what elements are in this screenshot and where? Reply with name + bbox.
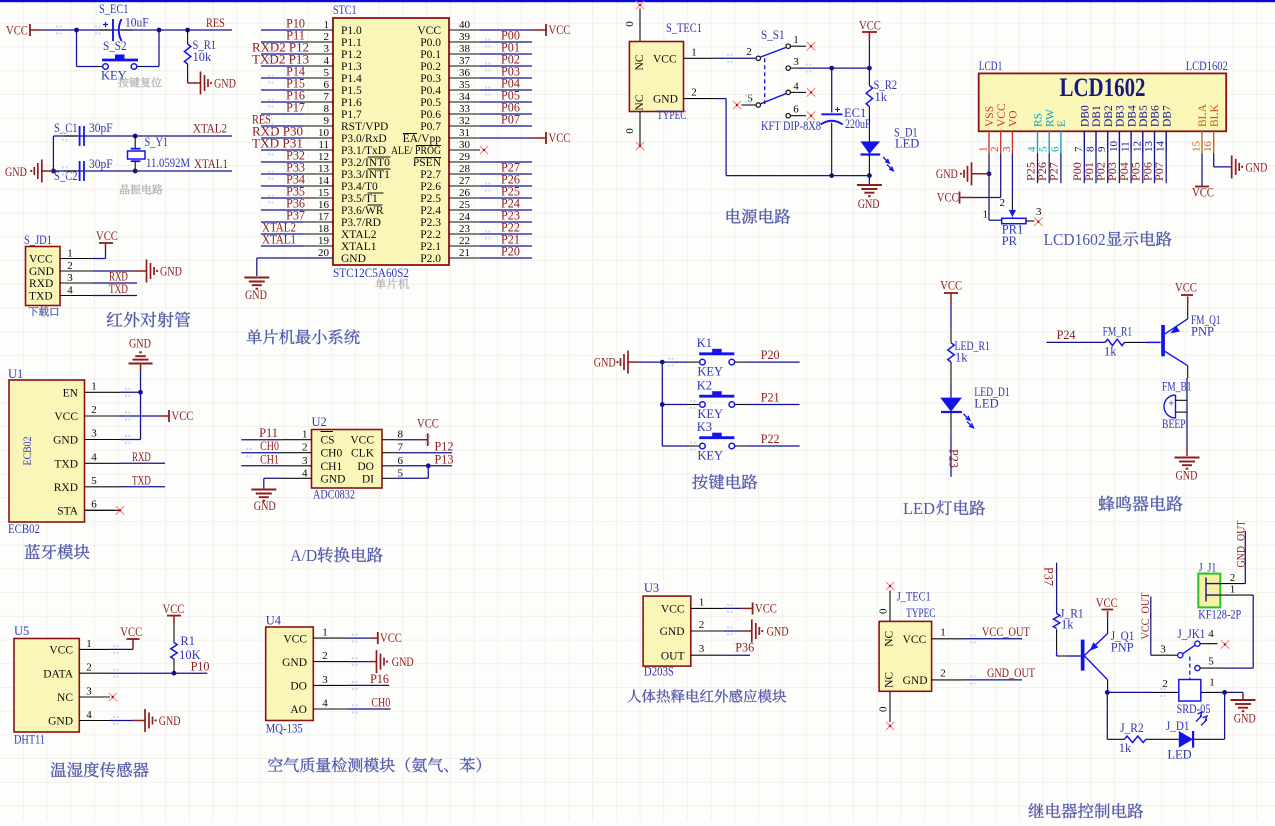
svg-text:11.0592M: 11.0592M bbox=[146, 156, 190, 170]
svg-text:P1.1: P1.1 bbox=[341, 37, 362, 49]
switch pin5 circle bbox=[756, 103, 760, 107]
overline PSEN bbox=[415, 157, 442, 159]
MCU left pin 15 P3.5/T1 bbox=[303, 197, 333, 199]
svg-text:2: 2 bbox=[302, 442, 308, 454]
svg-text:VCC: VCC bbox=[49, 645, 73, 657]
svg-text:CH0: CH0 bbox=[260, 439, 279, 453]
capacitor S_C1 30pF bbox=[64, 135, 77, 137]
power ground GND (MQ) bbox=[348, 661, 368, 663]
caption hong wai dui she guan bbox=[107, 312, 191, 328]
svg-text:OUT: OUT bbox=[661, 650, 685, 662]
wire GND vertical bbox=[140, 392, 142, 439]
wire resistor to LED bbox=[950, 362, 952, 385]
svg-text:GND: GND bbox=[1234, 711, 1256, 726]
pot pin3 no connect bbox=[1026, 220, 1034, 222]
junction bbox=[157, 28, 162, 33]
svg-text:10: 10 bbox=[318, 127, 330, 139]
resistor S_R1 10k bbox=[187, 30, 189, 44]
svg-text:KEY: KEY bbox=[697, 365, 723, 379]
svg-text:S_Y1: S_Y1 bbox=[145, 135, 169, 149]
power ground GND (reset) bbox=[200, 72, 202, 95]
svg-text:9: 9 bbox=[1096, 146, 1108, 152]
svg-text:2: 2 bbox=[322, 650, 328, 662]
svg-text:2: 2 bbox=[67, 260, 73, 272]
svg-text:P0.1: P0.1 bbox=[420, 49, 441, 61]
svg-text:30: 30 bbox=[459, 139, 471, 151]
svg-text:GND: GND bbox=[767, 624, 789, 639]
svg-text:RES: RES bbox=[206, 16, 225, 30]
svg-text:VCC: VCC bbox=[29, 254, 53, 266]
MCU left pin 5 P1.4 bbox=[303, 77, 333, 79]
wire to P21 bbox=[735, 404, 747, 406]
svg-text:15: 15 bbox=[1191, 141, 1203, 153]
wire to base bbox=[1124, 341, 1146, 343]
svg-text:GND: GND bbox=[858, 196, 880, 211]
junction bbox=[74, 28, 79, 33]
LCD wire pin 14 net P07 bbox=[1165, 153, 1167, 183]
svg-text:10uF: 10uF bbox=[125, 16, 149, 30]
caption dian yuan dian lu bbox=[727, 209, 790, 224]
wire CH1 bbox=[241, 465, 282, 467]
caption dan pian ji zui xiao xi tong bbox=[247, 329, 360, 344]
svg-text:LCD1602: LCD1602 bbox=[1186, 59, 1228, 73]
MCU left pin 18 XTAL2 bbox=[303, 233, 333, 235]
svg-text:VCC: VCC bbox=[661, 604, 685, 616]
svg-text:1: 1 bbox=[302, 429, 308, 441]
earth ground GND (U2) bbox=[251, 489, 276, 491]
no connect X (bottom typec) bbox=[639, 112, 641, 147]
resistor R1 10K bbox=[173, 626, 175, 643]
svg-text:VCC: VCC bbox=[1192, 185, 1214, 200]
svg-text:CS: CS bbox=[321, 435, 335, 447]
MCU left pin 14 P3.4/T0 bbox=[303, 185, 333, 187]
svg-text:6: 6 bbox=[1049, 146, 1061, 152]
wire P24 to resistor bbox=[1046, 341, 1105, 343]
MCU right pin 22 P2.1 bbox=[449, 245, 480, 247]
svg-text:GND: GND bbox=[245, 287, 267, 302]
svg-text:SRD-05: SRD-05 bbox=[1177, 702, 1211, 716]
svg-text:GND: GND bbox=[282, 657, 307, 669]
junction bbox=[987, 171, 992, 176]
svg-text:4: 4 bbox=[322, 698, 328, 710]
svg-text:1k: 1k bbox=[1119, 741, 1132, 755]
svg-text:P13: P13 bbox=[435, 453, 454, 467]
wire to base bbox=[1056, 629, 1058, 652]
wire VO drop pin3 bbox=[1011, 153, 1013, 198]
svg-text:ECB02: ECB02 bbox=[22, 436, 34, 465]
svg-text:5: 5 bbox=[324, 67, 330, 79]
svg-text:GND: GND bbox=[936, 166, 958, 181]
wire to P20 bbox=[735, 361, 747, 363]
svg-text:P2.1: P2.1 bbox=[420, 241, 441, 253]
MCU right pin 35 P0.4 bbox=[449, 89, 480, 91]
svg-text:1: 1 bbox=[1230, 584, 1236, 596]
capacitor S_C2 30pF bbox=[64, 170, 77, 172]
wire buzzer to GND bbox=[1186, 412, 1188, 448]
wire RXD bbox=[93, 282, 137, 284]
push button K1 KEY bbox=[662, 361, 688, 363]
wire MCU pin20 to GND bbox=[257, 257, 333, 259]
power port VCC (U1) bbox=[120, 415, 160, 417]
svg-text:7: 7 bbox=[324, 91, 330, 103]
MCU left pin 7 P1.6 bbox=[303, 101, 333, 103]
svg-text:11: 11 bbox=[318, 139, 329, 151]
capacitor EC1 220uF electrolytic bbox=[831, 68, 833, 112]
svg-text:P3.5/T1: P3.5/T1 bbox=[341, 193, 378, 205]
LCD wire pin 13 net P06 bbox=[1154, 153, 1156, 183]
svg-text:10k: 10k bbox=[193, 50, 213, 64]
svg-text:P0.5: P0.5 bbox=[420, 97, 441, 109]
svg-text:2: 2 bbox=[940, 668, 946, 680]
junction bbox=[829, 173, 834, 178]
svg-text:VCC: VCC bbox=[903, 634, 927, 646]
svg-text:NC: NC bbox=[884, 630, 896, 646]
overline RD bbox=[368, 204, 383, 206]
svg-text:P1.3: P1.3 bbox=[341, 61, 362, 73]
wire to P22 bbox=[735, 445, 747, 447]
power port VCC (buzzer) bbox=[1187, 306, 1189, 319]
svg-text:1k: 1k bbox=[1104, 345, 1117, 359]
MCU left pin 8 P1.7 bbox=[303, 113, 333, 115]
svg-text:4: 4 bbox=[302, 467, 308, 479]
svg-text:BLK: BLK bbox=[1209, 103, 1221, 127]
MCU left pin 3 P1.2 bbox=[303, 53, 333, 55]
LED arrows J_D1 bbox=[1196, 712, 1207, 725]
power ground GND (S_JD1) bbox=[93, 270, 134, 272]
svg-text:XTAL1: XTAL1 bbox=[194, 157, 228, 171]
svg-text:LCD1602: LCD1602 bbox=[1044, 230, 1106, 249]
svg-text:10: 10 bbox=[1108, 141, 1120, 153]
wire TXD bbox=[93, 295, 137, 297]
svg-text:VCC: VCC bbox=[6, 23, 28, 38]
svg-text:P2.2: P2.2 bbox=[420, 229, 441, 241]
svg-text:5: 5 bbox=[1208, 656, 1214, 668]
svg-text:J_JK1: J_JK1 bbox=[1177, 627, 1205, 641]
svg-text:3: 3 bbox=[302, 455, 308, 467]
svg-text:DHT11: DHT11 bbox=[14, 732, 45, 747]
LCD wire pin 10 net P03 bbox=[1118, 153, 1120, 183]
svg-text:TXD: TXD bbox=[29, 291, 53, 303]
svg-text:22: 22 bbox=[459, 235, 470, 247]
switch pin2 circle bbox=[756, 56, 760, 60]
svg-text:7: 7 bbox=[398, 442, 404, 454]
svg-text:2: 2 bbox=[1230, 572, 1236, 584]
svg-text:DI: DI bbox=[362, 473, 374, 485]
wire CLK P12 bbox=[396, 452, 453, 454]
no connect NC bbox=[109, 693, 117, 701]
svg-text:BLA: BLA bbox=[1197, 103, 1209, 127]
svg-text:3: 3 bbox=[1001, 146, 1013, 152]
svg-text:P0.7: P0.7 bbox=[420, 121, 441, 133]
svg-text:BEEP: BEEP bbox=[1162, 417, 1186, 431]
power ground GND (DHT11) bbox=[110, 720, 133, 722]
svg-text:4: 4 bbox=[86, 709, 92, 721]
svg-text:DB2: DB2 bbox=[1103, 105, 1115, 127]
svg-text:U1: U1 bbox=[8, 367, 23, 381]
LED J_D1 bbox=[1146, 738, 1179, 740]
svg-text:6: 6 bbox=[324, 79, 330, 91]
svg-text:MQ-135: MQ-135 bbox=[266, 721, 303, 736]
svg-text:30pF: 30pF bbox=[89, 121, 113, 135]
wire BLK to GND bbox=[1213, 153, 1215, 167]
svg-text:DB3: DB3 bbox=[1115, 105, 1127, 127]
svg-text:P3.1/TxD: P3.1/TxD bbox=[341, 145, 386, 157]
svg-text:RW: RW bbox=[1044, 109, 1056, 127]
svg-text:P1.2: P1.2 bbox=[341, 49, 362, 61]
svg-text:VCC: VCC bbox=[996, 103, 1008, 127]
MCU right pin 23 P2.2 bbox=[449, 233, 480, 235]
svg-text:14: 14 bbox=[318, 175, 330, 187]
MCU right pin 36 P0.3 bbox=[449, 77, 480, 79]
svg-text:13: 13 bbox=[1143, 141, 1155, 153]
svg-text:ADC0832: ADC0832 bbox=[313, 487, 355, 502]
wire collector down bbox=[1107, 680, 1109, 693]
junction bbox=[660, 402, 665, 407]
power port VCC (U2 pin8) bbox=[396, 439, 419, 441]
wire P37 down bbox=[1056, 563, 1058, 614]
MCU right pin 39 P0.0 bbox=[449, 41, 480, 43]
svg-text:3: 3 bbox=[324, 43, 330, 55]
svg-text:20: 20 bbox=[318, 247, 330, 259]
svg-text:KF128-2P: KF128-2P bbox=[1198, 608, 1241, 622]
svg-text:10K: 10K bbox=[179, 648, 201, 662]
svg-text:P0.3: P0.3 bbox=[420, 73, 441, 85]
svg-text:TYPEC: TYPEC bbox=[657, 108, 687, 122]
crystal S_Y1 11.0592M bbox=[134, 136, 136, 148]
svg-text:1: 1 bbox=[940, 627, 946, 639]
svg-text:11: 11 bbox=[1120, 141, 1132, 152]
svg-text:VCC: VCC bbox=[755, 601, 777, 616]
MCU left pin 11 P3.1/TxD bbox=[303, 149, 333, 151]
svg-text:U3: U3 bbox=[644, 581, 659, 595]
LED S_D1 bbox=[861, 141, 881, 154]
switch pin6 row bbox=[786, 114, 790, 118]
wire EN to GND net bbox=[120, 391, 141, 393]
svg-text:1k: 1k bbox=[875, 90, 888, 104]
wire typec gnd leg bbox=[716, 98, 726, 100]
svg-text:TXD: TXD bbox=[54, 458, 78, 470]
wire VCC_OUT bbox=[966, 638, 1022, 640]
MCU left pin 6 P1.5 bbox=[303, 89, 333, 91]
no connect X (J_TEC1 bottom) bbox=[889, 691, 891, 722]
svg-text:P0.4: P0.4 bbox=[420, 85, 441, 97]
svg-text:RXD: RXD bbox=[29, 278, 53, 290]
LCD wire pin 6 net P27 bbox=[1060, 153, 1062, 183]
svg-text:GND: GND bbox=[53, 435, 78, 447]
svg-text:KEY: KEY bbox=[697, 449, 723, 463]
svg-text:EN: EN bbox=[63, 387, 79, 399]
svg-text:STC1: STC1 bbox=[333, 3, 357, 17]
svg-text:16: 16 bbox=[318, 199, 330, 211]
svg-text:TXD: TXD bbox=[132, 473, 151, 487]
MCU right pin 31 EA/Vpp bbox=[449, 137, 480, 139]
svg-text:GND: GND bbox=[214, 76, 236, 91]
svg-text:U5: U5 bbox=[14, 624, 29, 638]
svg-text:DO: DO bbox=[357, 461, 374, 473]
svg-text:36: 36 bbox=[459, 67, 471, 79]
svg-text:NC: NC bbox=[634, 94, 646, 110]
switch pin4 row bbox=[786, 90, 790, 94]
wire pot pin1 bbox=[989, 219, 1002, 221]
overline CS bbox=[321, 431, 334, 433]
svg-text:VCC: VCC bbox=[937, 190, 959, 205]
svg-text:DATA: DATA bbox=[43, 668, 73, 680]
push button K3 KEY bbox=[662, 445, 688, 447]
svg-text:K3: K3 bbox=[697, 420, 712, 434]
svg-text:P12: P12 bbox=[435, 440, 454, 454]
svg-text:24: 24 bbox=[459, 211, 471, 223]
svg-text:GND: GND bbox=[48, 716, 73, 728]
svg-text:K2: K2 bbox=[697, 378, 712, 392]
svg-text:TYPEC: TYPEC bbox=[906, 606, 936, 620]
svg-text:40: 40 bbox=[459, 19, 471, 31]
MCU left pin 16 P3.6/WR bbox=[303, 209, 333, 211]
svg-text:DB6: DB6 bbox=[1150, 105, 1162, 127]
switch blade 2-1 bbox=[761, 48, 786, 58]
svg-text:P36: P36 bbox=[735, 641, 754, 655]
svg-text:P16: P16 bbox=[370, 672, 389, 686]
svg-text:17: 17 bbox=[318, 211, 330, 223]
svg-text:KFT DIP-8X8: KFT DIP-8X8 bbox=[761, 119, 821, 133]
switch blade 5-4 bbox=[761, 94, 786, 104]
wire DO P16 bbox=[348, 684, 389, 686]
svg-text:FM_B1: FM_B1 bbox=[1162, 380, 1192, 394]
svg-text:3: 3 bbox=[91, 428, 97, 440]
capacitor S_EC1 10uF bbox=[100, 29, 111, 31]
svg-text:GND: GND bbox=[341, 253, 366, 265]
power ground GND (U3) bbox=[724, 630, 742, 632]
relay coil SRD-05 bbox=[1107, 691, 1153, 693]
svg-text:8: 8 bbox=[324, 103, 330, 115]
svg-text:DB1: DB1 bbox=[1091, 105, 1103, 127]
MCU right pin 33 P0.6 bbox=[449, 113, 480, 115]
MCU right pin 28 P2.7 bbox=[449, 173, 480, 175]
svg-text:VSS: VSS bbox=[984, 106, 996, 127]
svg-text:VCC: VCC bbox=[380, 630, 402, 645]
svg-text:CH0: CH0 bbox=[371, 696, 390, 710]
svg-text:5: 5 bbox=[398, 467, 404, 479]
MCU right pin 25 P2.4 bbox=[449, 209, 480, 211]
svg-text:CH1: CH1 bbox=[260, 452, 279, 466]
svg-text:P2.5: P2.5 bbox=[420, 193, 441, 205]
MCU right pin 21 P2.0 bbox=[449, 257, 480, 259]
MCU right pin 40 VCC bbox=[449, 29, 480, 31]
svg-text:DB4: DB4 bbox=[1126, 105, 1138, 127]
svg-text:37: 37 bbox=[459, 55, 471, 67]
wire top 0 bbox=[889, 591, 891, 622]
svg-text:P0.0: P0.0 bbox=[420, 37, 441, 49]
MCU left pin 2 P1.1 bbox=[303, 41, 333, 43]
svg-text:1: 1 bbox=[793, 34, 799, 46]
svg-text:S_S1: S_S1 bbox=[761, 28, 785, 42]
MCU left pin 1 P1.0 bbox=[303, 29, 333, 31]
svg-text:S_EC1: S_EC1 bbox=[99, 2, 129, 16]
overline WR bbox=[368, 192, 384, 194]
svg-text:P2.0: P2.0 bbox=[420, 253, 441, 265]
svg-text:0: 0 bbox=[878, 706, 890, 712]
svg-text:LED: LED bbox=[903, 499, 935, 518]
svg-text:P17: P17 bbox=[286, 101, 305, 115]
wire to J_R2 bbox=[1106, 692, 1108, 739]
transistor J_Q1 PNP bbox=[1081, 640, 1085, 671]
svg-text:A/D: A/D bbox=[290, 546, 317, 565]
svg-text:1: 1 bbox=[978, 147, 990, 153]
svg-text:P20: P20 bbox=[761, 348, 780, 362]
svg-text:RST/VPD: RST/VPD bbox=[341, 121, 388, 133]
MCU left pin 19 XTAL1 bbox=[303, 245, 333, 247]
svg-text:1k: 1k bbox=[1061, 618, 1074, 632]
svg-text:26: 26 bbox=[459, 187, 471, 199]
potentiometer PR1 body bbox=[1002, 218, 1026, 223]
svg-text:GND: GND bbox=[594, 355, 616, 370]
svg-text:P23: P23 bbox=[946, 449, 960, 468]
resistor S_R2 1k bbox=[866, 85, 872, 106]
svg-text:P24: P24 bbox=[1057, 328, 1077, 342]
svg-text:VCC: VCC bbox=[549, 22, 571, 37]
svg-text:J_D1: J_D1 bbox=[1166, 719, 1190, 733]
power port VCC (relay) bbox=[1107, 618, 1109, 634]
svg-text:EA/Vpp: EA/Vpp bbox=[403, 133, 442, 145]
svg-text:6: 6 bbox=[793, 104, 799, 116]
power port VCC (U3) bbox=[724, 607, 742, 609]
overline PROG bbox=[416, 145, 441, 147]
svg-text:P1.0: P1.0 bbox=[341, 25, 362, 37]
wire bottom rail bbox=[726, 175, 869, 177]
svg-text:3: 3 bbox=[86, 686, 92, 698]
svg-text:P1.6: P1.6 bbox=[341, 97, 362, 109]
svg-text:AO: AO bbox=[290, 704, 307, 716]
LCD wire pin 7 net P00 bbox=[1083, 153, 1085, 183]
svg-text:1: 1 bbox=[1209, 677, 1215, 689]
wire pin5 to J_J1 pin1 bbox=[1223, 667, 1253, 669]
svg-text:P11: P11 bbox=[259, 426, 278, 440]
svg-text:P2.3: P2.3 bbox=[420, 217, 441, 229]
svg-text:CLK: CLK bbox=[351, 448, 375, 460]
wire BLA to VCC bbox=[1201, 153, 1203, 186]
junction bbox=[138, 390, 143, 395]
power port VCC (backlight) bbox=[1195, 186, 1209, 188]
junction bbox=[1222, 690, 1227, 695]
svg-text:19: 19 bbox=[318, 235, 330, 247]
svg-text:P0.6: P0.6 bbox=[420, 109, 441, 121]
svg-text:VO: VO bbox=[1008, 110, 1020, 127]
svg-text:38: 38 bbox=[459, 43, 471, 55]
svg-text:GND: GND bbox=[321, 473, 346, 485]
power ground GND (backlight) bbox=[1231, 155, 1233, 178]
wire to key S_S2 bbox=[76, 30, 78, 67]
svg-text:4: 4 bbox=[793, 81, 799, 93]
svg-text:4: 4 bbox=[67, 285, 73, 297]
svg-text:FM_R1: FM_R1 bbox=[1103, 325, 1133, 339]
svg-text:14: 14 bbox=[1155, 141, 1167, 153]
no connect X (top) bbox=[636, 1, 644, 9]
wire typec top bbox=[639, 9, 641, 42]
wire XTAL2 net bbox=[53, 135, 232, 137]
svg-text:0: 0 bbox=[624, 21, 636, 27]
svg-text:GND: GND bbox=[129, 336, 151, 351]
wire RXD-TXD bbox=[120, 486, 165, 488]
svg-text:E: E bbox=[1056, 120, 1068, 127]
svg-text:25: 25 bbox=[459, 199, 471, 211]
svg-text:12: 12 bbox=[318, 151, 329, 163]
svg-text:J_TEC1: J_TEC1 bbox=[897, 590, 931, 604]
svg-text:12: 12 bbox=[1131, 141, 1143, 152]
power port VCC (MQ) bbox=[348, 637, 368, 639]
svg-text:VCC: VCC bbox=[120, 624, 142, 639]
svg-text:2: 2 bbox=[1000, 197, 1006, 209]
svg-text:KEY: KEY bbox=[697, 407, 723, 421]
svg-text:3: 3 bbox=[699, 643, 705, 655]
